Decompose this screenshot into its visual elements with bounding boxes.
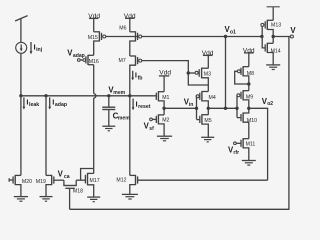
wire M15 gate to M6 gate	[106, 36, 138, 38]
transistor M7	[130, 56, 142, 96]
svg-text:V: V	[58, 169, 64, 178]
node junction M9/M10 gate on Vo1	[235, 107, 238, 110]
transistor M5	[197, 114, 209, 137]
transistor M14	[265, 43, 273, 65]
ground under M17	[87, 197, 100, 202]
M17 diode loop wire	[81, 169, 94, 181]
svg-text:M7: M7	[119, 58, 126, 64]
wire Vo2 to M12 gate	[249, 108, 268, 180]
svg-text:fb: fb	[138, 75, 143, 81]
supply bar of M13	[267, 7, 280, 21]
svg-text:Vdd: Vdd	[202, 50, 214, 57]
transistor M8	[237, 66, 248, 91]
label Vmem	[108, 85, 125, 95]
svg-text:M2: M2	[162, 118, 169, 124]
label Vo1	[225, 25, 237, 35]
svg-text:M9: M9	[246, 95, 253, 101]
svg-text:M10: M10	[247, 118, 257, 124]
transistor M13	[261, 20, 273, 44]
svg-text:Vdd: Vdd	[243, 47, 255, 54]
svg-text:M18: M18	[73, 188, 83, 194]
node junction M4/M5 drain Vo1	[207, 107, 210, 110]
svg-text:o2: o2	[267, 101, 273, 107]
svg-text:mem: mem	[118, 116, 130, 122]
Ireset annotation arrow	[132, 99, 135, 111]
wire M18 to M17 gate	[76, 179, 85, 181]
svg-text:M4: M4	[209, 95, 216, 101]
node junction M1/M2 Vin	[162, 107, 165, 110]
wire M16 source to M17 drain with hop over Vmem rail	[94, 65, 96, 174]
current source Iinj circle	[16, 42, 27, 53]
wire Vo1 vertical	[225, 37, 227, 109]
node Vmem junction at Iinj	[19, 94, 22, 97]
ground under Cmem	[102, 126, 115, 131]
label Vsf	[144, 122, 155, 132]
transistor M3	[195, 68, 208, 92]
node junction M3 gate tap	[187, 71, 190, 74]
Iinj annotation arrow	[30, 42, 33, 54]
label Vca	[58, 169, 70, 180]
svg-text:ca: ca	[64, 174, 70, 180]
wire Vin	[164, 107, 196, 109]
label Vrfr	[228, 146, 239, 156]
svg-text:Vdd: Vdd	[88, 13, 100, 20]
svg-text:M13: M13	[271, 23, 281, 29]
wire output Vspk	[273, 36, 290, 38]
wire M13 gate to M14 gate	[262, 26, 265, 48]
node junction Vin gate tap	[195, 107, 198, 110]
transistor M12	[130, 175, 268, 195]
svg-text:mem: mem	[113, 90, 125, 96]
node junction M13/M14 drain	[272, 35, 275, 38]
transistor M9	[237, 90, 249, 108]
ground under M5	[201, 137, 214, 142]
svg-text:M15: M15	[88, 35, 98, 41]
input terminal slash	[15, 16, 28, 21]
transistor M19	[46, 175, 64, 197]
wire M6 gate to M13/M14 gates	[142, 36, 262, 38]
node junction Vo1 top	[224, 35, 227, 38]
node junction M8 diode	[247, 82, 250, 85]
Vdd supply of M3	[203, 55, 213, 68]
M8 diode wire	[235, 71, 249, 84]
Vmem rail wire	[21, 95, 156, 97]
svg-text:M1: M1	[162, 95, 169, 101]
svg-text:M6: M6	[119, 25, 126, 31]
wire Vmem to M19 drain	[45, 96, 47, 176]
svg-text:Vdd: Vdd	[159, 70, 171, 77]
node junction at M7/M12	[128, 94, 131, 97]
transistor M15	[94, 31, 106, 55]
transistor M6	[130, 31, 142, 56]
svg-text:M5: M5	[204, 118, 211, 124]
ground under M20	[14, 197, 28, 202]
wire current source to Vmem rail	[20, 53, 22, 95]
label Ireset	[136, 99, 151, 110]
label Vadap	[67, 49, 85, 60]
label Ifb	[135, 71, 143, 82]
capacitor Cmem	[102, 96, 115, 126]
svg-text:sf: sf	[149, 126, 154, 132]
label Ileak	[26, 97, 39, 108]
svg-text:in: in	[189, 102, 194, 108]
label V output	[290, 26, 296, 35]
svg-text:M14: M14	[271, 49, 281, 55]
transistor M17	[85, 173, 93, 197]
node junction at Cmem	[107, 94, 110, 97]
transistor M1	[156, 91, 164, 115]
node junction Vo2	[247, 107, 250, 110]
svg-text:M8: M8	[247, 71, 254, 77]
wire to M3 bubble	[188, 72, 195, 74]
svg-text:rfr: rfr	[233, 150, 239, 156]
wire M9/M10 gate tap	[237, 95, 241, 117]
svg-text:inj: inj	[36, 47, 43, 53]
Vdd supply of M8	[244, 53, 254, 67]
ground under M2	[157, 136, 172, 141]
svg-text:M20: M20	[22, 179, 32, 185]
svg-text:V: V	[290, 26, 296, 35]
Vdd supply of M15	[89, 18, 99, 31]
Vdd supply of M1	[159, 76, 169, 92]
transistor M20	[9, 175, 21, 197]
transistor M10	[241, 108, 249, 138]
label Iinj	[34, 42, 43, 53]
ground under M11	[242, 161, 256, 166]
wire Vo1 rail	[208, 107, 237, 109]
terminal circle Vspk	[290, 35, 293, 38]
transistor M2	[150, 114, 164, 136]
Ileak annotation arrow	[23, 97, 26, 109]
svg-text:reset: reset	[138, 104, 151, 110]
svg-text:M3: M3	[204, 71, 211, 77]
wire Vmem to M12 drain	[129, 96, 131, 176]
svg-text:o1: o1	[230, 29, 236, 35]
Ifb annotation arrow	[131, 71, 134, 81]
transistor M18 (horizontal)	[63, 180, 77, 209]
ground under M14	[266, 65, 280, 70]
transistor M4	[196, 91, 208, 115]
svg-text:adap: adap	[73, 53, 85, 59]
wire M7 gate to M3 gate and M4 drain node	[142, 61, 209, 85]
wire input to current source	[20, 18, 22, 42]
label Vin	[184, 98, 194, 109]
Vdd supply of M6	[125, 18, 135, 32]
transistor M11	[234, 138, 249, 160]
label Cmem	[113, 111, 131, 121]
node junction M13/M14 gate tap	[260, 35, 263, 38]
Iadap annotation arrow	[48, 97, 51, 109]
svg-text:leak: leak	[29, 102, 39, 108]
ground under M12	[122, 194, 138, 199]
svg-text:M16: M16	[89, 59, 99, 65]
svg-text:Vdd: Vdd	[124, 13, 136, 20]
svg-text:M12: M12	[116, 178, 126, 184]
node junction at M19	[44, 94, 47, 97]
svg-text:M17: M17	[90, 178, 100, 184]
wire Vmem to M20 drain	[20, 96, 22, 176]
node junction Vo1 vertical tap	[224, 107, 227, 110]
svg-text:M19: M19	[36, 179, 46, 185]
ground under M19	[40, 197, 53, 202]
svg-text:adap: adap	[55, 102, 67, 108]
label Iadap	[52, 97, 67, 108]
svg-text:M11: M11	[246, 141, 256, 147]
transistor M16	[77, 55, 93, 65]
spike feedback rail bottom	[70, 37, 289, 210]
label Vo2	[262, 97, 274, 107]
gate column M4/M5	[196, 96, 198, 119]
